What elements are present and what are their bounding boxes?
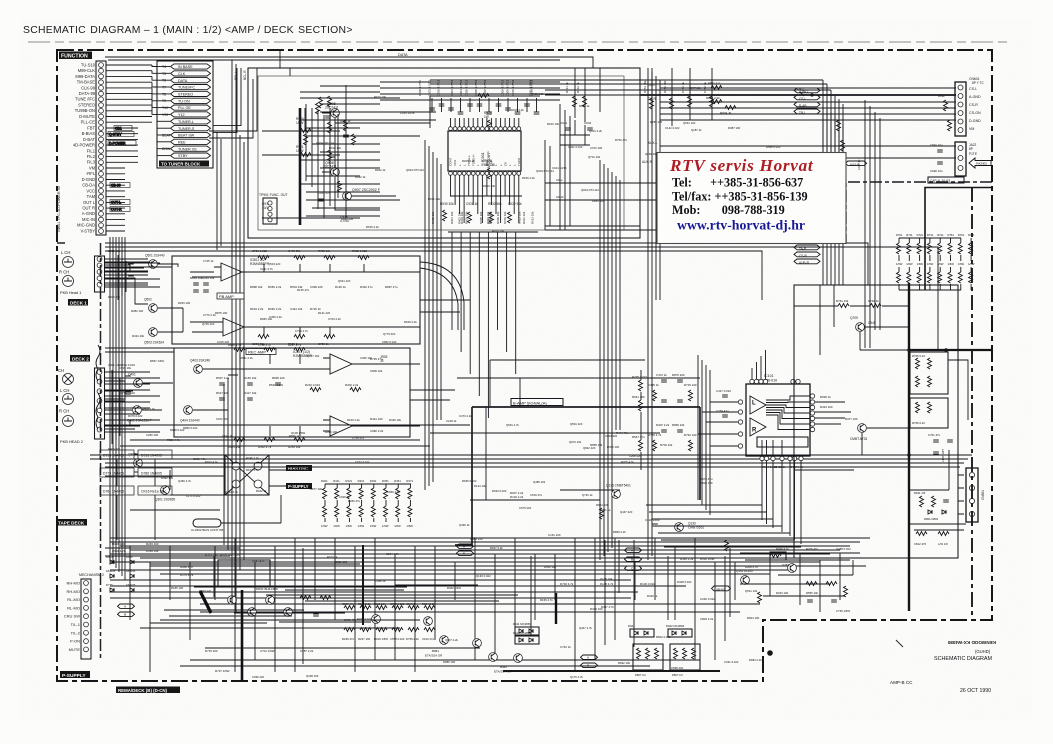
svg-text:Tel: ++385-31-856-637: Tel: ++385-31-856-637 [672,176,803,190]
right mid resistor pair rows [742,176,759,202]
net tag IN BASE [157,64,211,69]
Q771 drive cluster [228,587,331,616]
resistor network columns [573,96,845,151]
long return wires center-left [105,348,430,446]
IC101 internal fan wires [757,396,810,456]
page edge faint dashed line [28,41,1012,43]
net tag PLL OE [157,105,211,110]
trunk bundle to power box [823,104,843,285]
CN601 pin labels [969,87,981,131]
wires right mid [794,285,968,530]
transistor Q404 [180,406,200,423]
staircase cluster passives [806,582,848,603]
wires below IC601 corridor [448,175,538,418]
small net tags near P901 [108,126,136,212]
net tag TUNER-L [157,119,211,124]
label rows below IC601 [431,211,535,224]
IC601 top pins [449,127,521,131]
R13x column resistors [600,370,643,519]
REC-L tag [700,155,823,161]
resistor bank labels [321,479,414,528]
BIAS OSC tag [286,465,312,471]
mid horizontal connectors texture [105,259,172,432]
bias oscillator transformer T301 [225,455,269,495]
rec amp wires [105,354,420,436]
transistor Q402 [127,406,152,423]
vertical trunk bundle left of IC601 [425,140,441,490]
net tag CLK [157,71,211,76]
long mid bus wires [90,425,972,467]
extra bottom-left density [105,548,480,648]
transistor Q130 [645,518,704,531]
Q302 [128,453,142,468]
R803 resistor [706,96,722,104]
P-SUPPLY tag [286,483,312,489]
resistor pair boxes B [910,398,948,428]
SB-MT net tag [712,586,731,592]
mid horizontal resistor bank [344,606,435,632]
op-amp R [750,401,766,437]
heavy CS-R line [640,94,956,96]
control box labels texture [316,92,599,233]
IC601 internal column labels [449,155,521,166]
IC101 external wires [698,350,851,544]
REC-R tag [700,218,823,224]
right vertical bundle x865-880 [865,100,880,348]
F802 fuse label [797,87,804,96]
bottom band labels texture [171,546,762,679]
junction dot on staircase [767,650,773,656]
op-amp IC501b [216,318,256,336]
Q381 [782,563,796,572]
Q710 [850,424,867,441]
deck2 input extra stubs [112,370,120,444]
svg-text:AMP-B CC: AMP-B CC [890,680,913,685]
net tag TUNER VS [157,146,211,151]
IC101 area labels [648,373,858,469]
TA-R / CS-R / AUB-R tags [794,245,820,265]
deck1 head connector [95,256,105,292]
vertical trunk bundle right of control box [648,68,660,366]
svg-text:SCHEMATIC DIAGRAM: SCHEMATIC DIAGRAM [934,656,993,662]
heavy rail horizontal right [909,349,992,351]
mid cluster caps right of IC601 [545,120,700,200]
relay box [218,553,270,586]
schematic outer border (dash-dot frame) [57,50,992,681]
left bottom labels [112,542,715,673]
hexagonal net tags TA-L etc [794,88,820,115]
CAP boxed label [928,177,964,183]
staircase cluster labels [745,547,851,613]
rec amp labels [120,343,384,449]
cap column cluster [928,433,953,462]
op-amp L [750,396,766,414]
deck2 erase head jack [58,368,83,444]
vertical trunk wires left of control box [217,60,244,480]
deck2 head connector [95,368,105,439]
test point TP901 [259,193,288,224]
FUNCTION tag [59,52,92,60]
caps at phones [930,143,943,173]
diode network D921 [628,624,654,637]
transistor Q403 [190,359,210,374]
net labels CB-L CS-R [642,83,658,164]
D801 cluster [924,510,946,521]
net tag STBY [157,153,211,158]
svg-text:(GUHD): (GUHD) [975,649,991,654]
net tag Y12 [157,112,211,117]
net tag DATA [157,78,211,83]
DECK 2 tag [70,355,90,362]
DATA bus top [105,57,593,68]
PB AMP tag [217,293,244,299]
PB AMP section box [172,256,420,344]
diode network D911 MC2850 [513,622,539,635]
ETA302 output pair group [425,636,522,674]
bottom vertical drops [130,538,735,672]
control box caps/resistors texture [304,97,356,201]
F801 resistor [708,81,722,90]
bias osc wires [105,463,309,523]
tuner-L/S wires to right [209,68,257,138]
CNP02 labels [64,581,81,652]
bottom-right title block texts [890,640,996,694]
svg-text:Tel/fax: ++385-31-856-139: Tel/fax: ++385-31-856-139 [672,190,808,204]
op-amp IC501a [214,263,254,281]
transistor Q135 [606,484,631,499]
wires into tuner block column [152,65,241,132]
net tag BEAT SW [157,132,211,137]
IC601 bottom pins [449,172,521,176]
IC101 power amp box [746,384,810,456]
R804 resistor [720,106,736,116]
tone section box edges [545,226,700,230]
connector CN601 [955,77,985,136]
REC AMP section box [174,348,410,437]
deck control section box [248,68,640,238]
IC101 pins [738,379,814,460]
connector CN801 [958,468,985,522]
trunk bundle extension down [224,378,244,612]
transistor Q907 [343,188,381,200]
center area labels texture [446,86,791,534]
B-AMP SIGNAL(A) tag [511,399,563,406]
connector P901 FUNCTION pin strip [96,61,106,235]
extra connector stubs right of deck boxes [410,300,470,400]
VR phones resistors [938,94,952,131]
BUT-L tag [760,186,823,192]
svg-text:www.rtv-horvat-dj.hr: www.rtv-horvat-dj.hr [677,218,805,233]
left cap cluster of IC101 [653,380,728,451]
bottom band long wires [110,538,880,666]
AUX-R net tag [845,161,866,166]
labels cluster [262,111,522,223]
D913 diode cluster [110,560,134,592]
op-amp IC401b [323,416,364,436]
Q301 [155,486,175,502]
wires control box [262,50,540,218]
junction dot [810,93,813,96]
REMA DECK(B) D-CN tag [116,687,180,694]
deck areas labels texture [119,259,417,503]
RTV servis Horvat info box [657,153,846,244]
wires from diode grid [117,454,155,540]
TAPE DECK tag [56,519,87,526]
diode label box grid D913.. [100,450,172,495]
bias trap coils [96,345,100,429]
deck1 pb wires [105,259,420,335]
net tag REE [157,139,211,144]
curved corner wires deck1 out [420,262,464,330]
P901 pin labels [73,62,96,233]
heavy signal bus [455,407,700,545]
net tag TUNER-S [157,126,211,131]
inner signal box [258,76,624,230]
svg-text:KENWOOD KX-W4080: KENWOOD KX-W4080 [947,640,996,645]
IC601 label [481,151,491,168]
center tiny labels [470,375,713,541]
phones jack connector [955,142,977,176]
capacitor bank above IC601 [429,98,539,114]
heavy rail in control box [299,108,302,225]
DECK 1 tag [68,299,88,306]
bottom heavy rails [200,545,720,681]
transistor Q503 [144,328,164,345]
transistor Q905 [325,102,339,117]
deck1 input jacks [59,250,81,295]
transistor Q501 [145,254,165,269]
power supply section box [794,285,958,558]
TO TUNER BLOCK tag [159,161,209,167]
phones arrow [969,158,991,168]
IC101 bottom drops to band [646,505,801,547]
svg-text:26 OCT 1990: 26 OCT 1990 [960,688,991,694]
transistor Q502 [144,298,157,313]
svg-text:Mob: 098-788-319: Mob: 098-788-319 [672,203,785,217]
bottom-right component cluster [914,491,949,546]
CL0302 bias cont [191,519,223,532]
resistor cluster [300,94,512,224]
tone network cluster [545,68,843,228]
bottom band extra wires [135,540,730,664]
IC601 tone control [448,131,521,171]
REC AMP tag [246,349,276,355]
transistor Q906 [323,161,339,176]
long bus wires below control box [105,243,648,251]
net tag TU-ON [157,98,211,103]
label row above IC601 [418,80,534,96]
output RC network boxes [633,644,700,677]
resistor pair boxes A [910,352,948,394]
deck1 input extra stubs [105,255,150,300]
mechanism connector CNP02 [81,579,91,659]
Q709 [850,316,876,331]
control box interior wiring texture [300,82,560,218]
tone section verticals [545,104,570,230]
hex tags A/B mid [457,544,474,549]
extended mid bus wires [640,243,938,350]
tone cluster tiny labels [565,80,861,170]
op-amp IC401a [323,354,364,374]
section boundary dash-dot x=972 [971,187,973,618]
TO TUNER BLOCK box [157,61,213,168]
rec amp passives [219,348,361,442]
pb amp labels [190,249,398,346]
net tag STEREO [157,91,211,96]
net tag TUNE/IFC [157,85,211,90]
P-SUPPLY tag [60,671,90,679]
deck input small electrolytics [125,262,134,410]
right section L-frame [925,188,991,291]
wires P901 to tuner block [106,65,152,580]
diode network D922 MC2848 [666,624,692,637]
junction dots on rails [907,348,948,457]
mid-left region labels [108,249,121,451]
R row above Q709 [836,299,881,308]
P-SUPPLY resistor bank [323,484,412,522]
tape deck mech boundary dash line [57,243,101,660]
heavy rail vertical right [908,283,910,611]
svg-text:RTV servis Horvat: RTV servis Horvat [669,156,814,175]
wires center [457,360,700,500]
diode network D912 MC2850 [513,631,539,644]
pb amp passives [193,256,369,339]
section boundary dash line right [846,182,992,244]
staircase-side cluster [740,553,860,612]
wires above IC601 [430,80,560,127]
wires to CN601 [660,88,956,158]
mid vertical trunks [600,160,652,560]
R7xx resistor array rows [896,233,975,290]
Q352 cluster [725,540,787,603]
transistor Q401 [128,373,142,388]
